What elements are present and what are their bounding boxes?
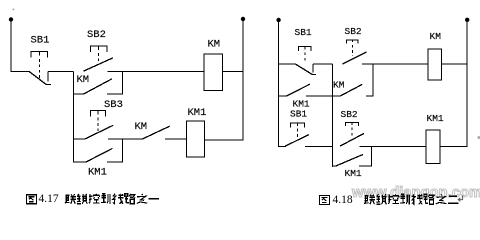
coil KM (right diagram) [428,49,441,80]
caption right: character 5 [400,194,409,204]
caption left: character 7 [125,194,135,204]
pushbutton SB2 (upper) actuator cap [347,40,359,44]
wire: rung 3 segment SB1 to junction B [305,145,333,147]
pushbutton SB3 actuator cap [90,111,105,117]
pushbutton SB2 actuator dashed link [98,53,100,65]
wire: row 2 segment rail to contact KM1 [278,95,287,97]
svg-text:SB2: SB2 [87,29,106,41]
node: right supply terminal (right diagram) [465,18,469,22]
pushbutton SB3 NO contact blade [85,125,113,139]
svg-text:KM: KM [77,74,90,86]
svg-text:SB1: SB1 [31,35,50,47]
caption right: character 4 [388,194,399,204]
wire: rung 1 segment SB2 to coil KM [108,70,205,72]
caption left: character 2 [65,194,76,204]
caption left: character 8 [137,194,148,204]
pushbutton SB1 (lower) NO contact blade [285,135,308,147]
pushbutton SB1 right terminal tick [47,71,49,81]
caption right: character 6 [412,194,423,204]
svg-text:4.17: 4.17 [39,193,59,205]
wire: rung 2 segment junction A to SB3 [73,138,85,140]
wire: left vertical rail (left diagram) [10,20,12,72]
pushbutton SB2 (lower) actuator dashed link [351,127,353,136]
wire: KM1 hold branch bottom-right [107,161,123,163]
pushbutton SB2 actuator cap [91,46,107,52]
pushbutton SB1 (upper) right terminal tick [312,64,314,72]
wire: rung 1 segment from rail to SB1 [11,70,30,72]
contact KM1 auxiliary NO blade (row 2) [287,84,310,96]
caption left: character 5 [101,194,110,204]
pushbutton SB3 actuator dashed link [97,118,99,132]
svg-text:KM1: KM1 [427,113,444,124]
caption left: character 4 [89,194,100,204]
svg-text:www.diangon.com: www.diangon.com [351,185,480,201]
wire: KM hold branch right vertical to rung 1 [122,71,124,94]
node: right supply terminal (left diagram) [241,17,245,21]
caption right: character 9 [448,196,459,203]
wire: rung 1 segment SB2 to coil KM [362,63,428,65]
svg-text:SB2: SB2 [345,26,362,37]
caption right: character 3 [376,194,386,204]
caption right: character 7 [424,194,434,204]
wire: right vertical rail (right diagram) [466,20,468,147]
wire: KM hold branch bottom-right [107,93,123,95]
wire: row 2 segment to right vertical [366,95,373,97]
wire: rung 1 segment rail to SB1 [278,63,296,65]
coil KM [204,54,222,90]
wire: rung 3 segment SB2 to coil KM1 [359,145,426,147]
caption left: character 3 [77,194,87,204]
svg-text:SB1: SB1 [290,108,307,119]
wire: row 4 segment junction B to KM1 blade [332,165,336,167]
stray smudge right edge [478,136,480,139]
contact KM interlock NO blade [143,126,170,139]
svg-text:KM: KM [333,80,345,91]
coil KM1 (right diagram) [426,130,440,164]
wire: row 2 segment KM1 to junction B and KM blade [306,95,341,97]
pushbutton SB1 (lower) actuator cap [290,123,304,128]
caption left: character 9 [149,198,160,200]
svg-text:4.18: 4.18 [333,194,353,206]
pushbutton SB1 (upper) actuator cap [298,46,311,51]
wire: rung 1 segment SB1 to junction B [313,63,333,65]
contact KM1 auxiliary NO blade [86,148,112,162]
wire: rung 1 segment SB1 to junction A [48,70,73,72]
caption left: character 6 [113,194,124,204]
caption right: character 2 [364,195,375,205]
svg-text:KM: KM [430,31,442,42]
node: left supply terminal (left diagram) [9,17,13,21]
svg-text:KM1: KM1 [88,166,107,178]
pushbutton SB1 (upper) NC contact blade [295,64,311,74]
contact KM1 self-hold NO blade (row 4) [336,155,363,167]
wire: KM1 hold branch right vertical (row 4) [371,146,373,166]
stray speck top-left [13,9,15,11]
svg-text:SB2: SB2 [341,109,358,120]
svg-text:KM: KM [135,121,148,133]
svg-text:KM: KM [208,39,221,51]
pushbutton SB2 NO contact blade [83,58,113,71]
pushbutton SB2 (lower) actuator cap [346,123,359,127]
svg-text:KM1: KM1 [188,107,207,119]
pushbutton SB2 (upper) NO contact blade [343,52,367,64]
svg-text:SB1: SB1 [295,27,312,38]
wire: junction A vertical (feeds KM hold, rung 2, KM1 hold) [72,71,74,162]
caption right: character 图 [319,196,329,205]
caption right: character 8 [436,194,447,204]
wire: KM1 hold branch bottom-left [73,161,86,163]
pushbutton SB2 (upper) actuator dashed link [352,45,354,56]
contact KM self-hold NO blade (row 2) [341,84,363,95]
pushbutton SB2 (lower) NO contact blade [340,133,364,146]
wire: KM hold branch right vertical [372,64,374,96]
wire: rung 2 coil KM1 to right rail [204,139,243,141]
wire: SB3/KM1 parallel-group right vertical [121,139,123,163]
pushbutton SB1 (upper) actuator dashed link [304,52,306,61]
svg-text:SB3: SB3 [104,99,123,111]
wire: left vertical rail (right diagram) [278,20,280,147]
wire: row 4 segment to right vertical [359,165,372,167]
caption right: paragraph return mark [458,195,462,201]
pushbutton SB1 (lower) actuator dashed link [296,129,298,140]
wire: KM hold branch bottom-left [73,93,84,95]
wire: right vertical rail (left diagram) [242,19,244,140]
wire: junction B vertical (x=332) [331,64,333,167]
wire: rung 2 segment contact KM to coil KM1 [165,138,187,140]
caption left: character 图 [27,195,37,204]
contact KM auxiliary NO blade [84,79,112,94]
pushbutton SB1 NC contact blade [29,71,46,84]
pushbutton SB1 actuator dashed link [38,59,40,79]
wire: rung 3 coil KM1 to right rail [440,145,467,147]
svg-text:KM1: KM1 [345,168,362,179]
pushbutton SB1 actuator cap [31,52,47,58]
node: left supply terminal (right diagram) [276,18,280,22]
wire: rung 2 segment SB3 to contact KM [108,138,143,140]
wire: rung 1 coil KM to right rail [442,63,468,65]
wire: rung 3 segment rail to SB1 lower [278,145,286,147]
coil KM1 [187,121,205,157]
wire: rung 1 coil KM to right rail [223,70,244,72]
